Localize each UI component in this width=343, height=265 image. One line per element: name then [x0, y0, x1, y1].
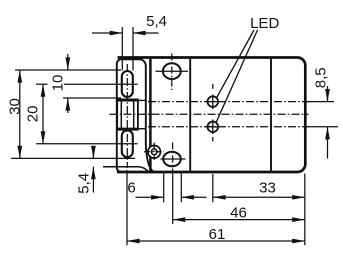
LED row 1 center line: [148, 101, 309, 103]
dim 5,4 top: left leader + arrow: [92, 32, 122, 34]
LED 1 cross: [206, 95, 221, 110]
mounting bracket outline: [117, 59, 154, 172]
dim 8,5: extension lines right: [306, 101, 334, 103]
body left edge: [149, 58, 152, 173]
dim 20: extension tick at slot1 center: [36, 83, 48, 85]
LED 2 circle: [208, 122, 219, 133]
slot 1 cross line: [117, 83, 138, 85]
dim 5,4 bottom: extension line: [103, 166, 118, 168]
svg-text:33: 33: [259, 179, 276, 196]
nut facet line right: [133, 101, 135, 129]
LED row 2 center line: [148, 126, 309, 128]
LED leader line 2: [216, 30, 257, 122]
bottom ellipse cross horizontal: [161, 158, 186, 160]
bottom ellipse center line vertical: [172, 143, 174, 172]
top ellipse cross horizontal: [156, 70, 189, 72]
top ellipse center line vertical: [171, 54, 173, 91]
ext: ellipse center / 46 left: [172, 174, 174, 225]
svg-text:30: 30: [6, 98, 23, 115]
sensor body outline: [117, 58, 305, 173]
bottom mounting hole ellipse: [163, 152, 181, 167]
ext: slot center / 61 left: [126, 170, 128, 245]
screw circle inner: [151, 149, 157, 155]
middle center line: [110, 113, 309, 115]
mounting slot 1 (obround): [122, 71, 133, 97]
screw circle outer: [148, 146, 161, 159]
svg-text:10: 10: [50, 75, 67, 92]
svg-text:46: 46: [230, 205, 247, 222]
clamp nut block: [117, 99, 138, 129]
body internal vertical line 2: [270, 59, 272, 171]
svg-text:6: 6: [127, 179, 135, 196]
LED 1 circle: [208, 96, 219, 107]
slot center line (dash-dot vertical): [126, 64, 128, 168]
nut-to-bracket connector top: [138, 99, 146, 101]
svg-text:LED: LED: [250, 15, 279, 32]
svg-text:61: 61: [209, 226, 226, 243]
dim 20: dimension line with arrows: [42, 84, 44, 144]
dim 46: line with arrows: [173, 219, 305, 221]
dim 61: line with arrows: [127, 240, 305, 242]
dim 30: extension bottom line: [11, 157, 135, 159]
svg-text:5,4: 5,4: [146, 13, 167, 30]
dim 10: extension bottom line: [63, 97, 121, 99]
dim 6: leader left + arrow: [136, 196, 164, 198]
svg-text:20: 20: [25, 106, 42, 123]
LED leader line 1: [217, 30, 254, 98]
ext: LED center / 33 left: [212, 174, 214, 202]
dim 5,4 bottom: arrows outside: [92, 147, 94, 158]
slot 2 cross line + 20-dim extension: [36, 143, 138, 145]
mounting slot 2 (obround): [122, 130, 133, 157]
ext: ellipse right edge: [180, 173, 182, 202]
dim 30: extension top line: [15, 69, 121, 71]
LED 2 cross: [206, 120, 221, 135]
screw cross horizontal: [144, 151, 164, 153]
dim 10: arrows outside: [67, 54, 69, 70]
nut facet line left: [120, 101, 122, 129]
dim 6: right arrow outside: [181, 196, 206, 198]
screw cross vertical: [153, 143, 155, 162]
top mounting hole ellipse: [163, 63, 181, 79]
dim 8,5: arrows outside: [327, 86, 329, 102]
ext: body right edge: [304, 174, 306, 246]
dim 30: dimension line with arrows: [19, 70, 21, 158]
LED vertical center line above/below: [212, 84, 214, 89]
dim 5,4 top: right leader + arrow: [134, 32, 159, 34]
bracket flange lower edge: [103, 167, 149, 172]
nut top/bottom thick bars: [117, 100, 138, 129]
nut-to-bracket connector bottom: [138, 128, 146, 130]
dim 5,4 top: extension lines: [121, 27, 123, 71]
svg-text:8,5: 8,5: [313, 67, 330, 88]
body internal vertical line 1: [189, 59, 191, 171]
svg-text:5,4: 5,4: [76, 173, 93, 194]
ext: ellipse left edge: [163, 173, 165, 202]
dim 33: line with arrows: [213, 196, 305, 198]
